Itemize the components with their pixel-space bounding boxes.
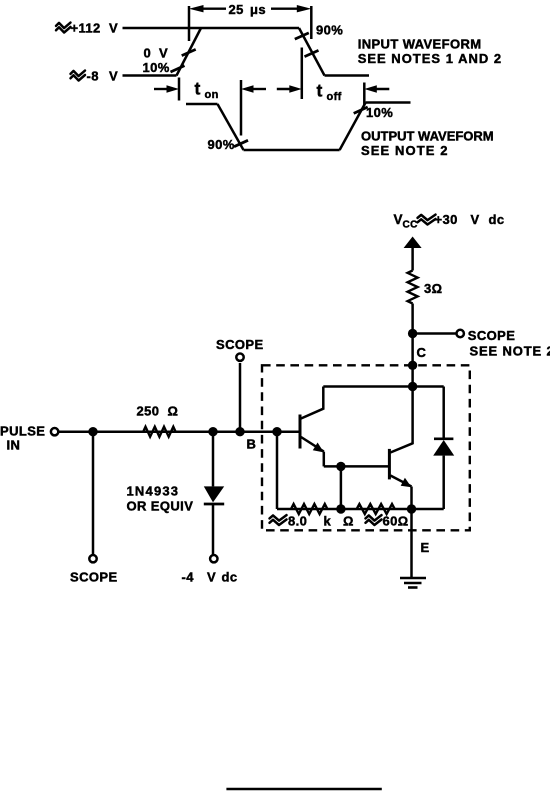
node C	[408, 361, 417, 370]
svg-text:SEE NOTE 2: SEE NOTE 2	[470, 344, 550, 359]
output waveform high line left	[186, 103, 218, 106]
wire to scope terminal	[413, 332, 456, 335]
transistor package dashed box	[262, 365, 470, 530]
t_off dimension extension line left	[301, 48, 304, 100]
svg-text:PULSE: PULSE	[0, 424, 45, 439]
svg-text:V: V	[109, 21, 118, 36]
node Q1 emitter / R2 junction	[336, 462, 345, 471]
svg-text:SCOPE: SCOPE	[216, 337, 264, 352]
svg-text:0: 0	[144, 46, 152, 61]
svg-text:-8: -8	[87, 69, 99, 84]
svg-text:SCOPE: SCOPE	[70, 570, 118, 585]
output waveform falling edge	[218, 104, 244, 150]
node internal top	[408, 382, 417, 391]
svg-text:10%: 10%	[366, 105, 393, 120]
output waveform rising edge	[340, 103, 366, 151]
wire node E to ground	[410, 509, 413, 578]
tick output rising 10%	[354, 107, 368, 113]
svg-text:SEE NOTES 1 AND 2: SEE NOTES 1 AND 2	[358, 51, 502, 66]
t_off arrow right	[373, 88, 389, 90]
upper scope terminal	[236, 354, 243, 361]
transistor Q1 base bar	[299, 415, 302, 449]
svg-text:V: V	[109, 69, 118, 84]
internal bottom wire (emitter bus)	[277, 508, 444, 511]
t_on arrow right	[250, 88, 266, 90]
transistor Q2 base bar	[388, 449, 391, 480]
svg-text:25: 25	[229, 2, 244, 17]
svg-text:IN: IN	[7, 438, 21, 453]
label approx 8.0 k ohm	[270, 514, 354, 529]
svg-text:250: 250	[137, 404, 160, 419]
scope terminal (see note 2)	[457, 330, 464, 337]
label approx -8 V	[71, 69, 119, 84]
svg-text:V: V	[471, 212, 480, 227]
label PULSE IN	[0, 424, 45, 453]
resistor R3 60 ohm	[357, 504, 395, 514]
svg-text:V: V	[394, 212, 403, 227]
Q1 collector lead	[301, 387, 323, 419]
25us dimension extension line left	[188, 6, 191, 41]
svg-text:dc: dc	[222, 570, 238, 585]
wire to upper scope terminal	[239, 363, 242, 432]
label 0 V	[144, 46, 169, 61]
svg-text:60Ω: 60Ω	[383, 514, 409, 529]
figure bottom rule	[226, 788, 381, 791]
tick input falling 90%	[295, 33, 309, 39]
t_on dimension extension line left	[178, 78, 181, 101]
label t_off	[317, 81, 342, 104]
svg-text:C: C	[417, 345, 427, 360]
svg-text:8.0: 8.0	[288, 514, 307, 529]
svg-text:on: on	[205, 89, 219, 101]
label 25 us	[229, 2, 266, 17]
wire node to bottom resistor junction	[340, 466, 343, 509]
label Vcc approx +30 V dc	[394, 212, 505, 231]
main input wire to Q1 base	[59, 430, 300, 433]
svg-text:10%: 10%	[143, 60, 170, 75]
node base bus junction	[272, 427, 281, 436]
input waveform falling edge	[299, 28, 325, 76]
svg-text:-4: -4	[182, 570, 195, 585]
internal top wire (collector bus)	[323, 385, 443, 388]
pulse input terminal	[51, 428, 58, 435]
ground	[400, 578, 426, 588]
node scope junction	[408, 329, 417, 338]
internal left vertical wire (base to R2)	[276, 432, 279, 509]
input waveform low line right	[325, 74, 370, 77]
node emitter junction	[407, 504, 416, 513]
svg-text:Ω: Ω	[343, 514, 354, 529]
t_off arrow left	[277, 88, 293, 90]
svg-text:SEE NOTE 2: SEE NOTE 2	[361, 143, 449, 158]
wire node C to internal collector bus	[411, 365, 414, 386]
input waveform +112V reference line and high plateau	[123, 27, 300, 30]
input waveform -8V reference line (low left)	[123, 74, 177, 77]
-4V dc terminal	[210, 555, 217, 562]
svg-text:E: E	[421, 540, 430, 555]
25us dimension arrow right	[271, 5, 311, 12]
t_on arrow left	[154, 88, 170, 90]
svg-text:V: V	[207, 570, 216, 585]
diode CR2 1N4933 (anode up)	[204, 432, 224, 555]
label -4 V dc	[182, 570, 238, 585]
svg-text:OR EQUIV: OR EQUIV	[127, 499, 194, 514]
label 1N4933 OR EQUIV	[127, 484, 194, 514]
resistor R2 8.0 k ohm	[291, 504, 327, 514]
input waveform rising edge	[177, 28, 202, 76]
t_on dimension extension line right	[240, 80, 243, 136]
svg-text:CC: CC	[403, 220, 418, 231]
Q2 emitter lead with arrow	[390, 476, 411, 510]
lower-left scope terminal	[89, 555, 96, 562]
wire R1 to scope node	[411, 304, 414, 334]
svg-text:OUTPUT WAVEFORM: OUTPUT WAVEFORM	[361, 129, 494, 144]
svg-text:μs: μs	[250, 2, 266, 17]
svg-text:t: t	[195, 79, 201, 99]
Vcc supply arrow (up)	[404, 237, 422, 271]
wire to lower-left scope terminal	[92, 432, 95, 555]
svg-text:+30: +30	[435, 212, 458, 227]
tick output falling 90%	[234, 140, 248, 146]
Q2 collector lead	[390, 387, 412, 453]
node pulse-in scope junction	[88, 427, 97, 436]
node upper scope junction B	[235, 427, 244, 436]
label approx 60 ohm	[366, 514, 409, 529]
svg-text:INPUT WAVEFORM: INPUT WAVEFORM	[358, 37, 482, 52]
tick input rising 10%	[171, 66, 185, 72]
svg-text:1N4933: 1N4933	[127, 484, 180, 499]
label approx +112 V	[56, 21, 118, 36]
tick input falling at dimension line	[305, 50, 319, 56]
node diode junction	[208, 427, 217, 436]
svg-text:B: B	[247, 437, 257, 452]
t_off dimension extension line right	[363, 83, 366, 106]
resistor R4 250 ohm	[143, 427, 175, 437]
svg-text:90%: 90%	[316, 23, 343, 38]
node R2/R3 junction	[336, 504, 345, 513]
25us dimension extension line right	[310, 6, 313, 39]
svg-text:dc: dc	[489, 212, 505, 227]
wire Q1 emitter to Q2 base	[324, 465, 388, 468]
label 250 ohm	[137, 404, 179, 419]
svg-text:+112: +112	[71, 21, 101, 36]
svg-text:Ω: Ω	[168, 404, 179, 419]
svg-text:V: V	[159, 46, 168, 61]
resistor R1 3 ohm	[408, 271, 418, 304]
label t_on	[195, 79, 219, 102]
svg-text:90%: 90%	[208, 137, 235, 152]
tick input rising 90%	[182, 49, 196, 55]
output waveform low plateau	[244, 149, 340, 152]
wire scope node to node C	[411, 334, 414, 366]
svg-text:t: t	[317, 81, 323, 101]
output waveform high line right	[366, 101, 411, 104]
diode CR1 (internal, cathode up)	[433, 387, 454, 510]
25us dimension arrow left	[189, 5, 226, 12]
svg-text:k: k	[324, 514, 332, 529]
svg-text:3Ω: 3Ω	[424, 281, 442, 296]
svg-text:off: off	[327, 91, 342, 103]
svg-text:SCOPE: SCOPE	[468, 328, 516, 343]
Q1 emitter lead with arrow	[301, 437, 324, 466]
